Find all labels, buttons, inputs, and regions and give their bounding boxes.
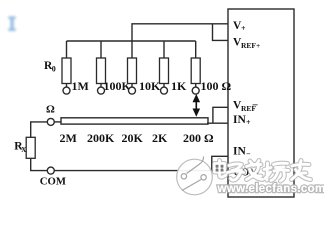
wire omega to track <box>54 121 61 123</box>
wire COM to IC <box>54 170 228 172</box>
pin label VREF- <box>233 100 258 113</box>
wire COM branch to IN- <box>212 156 228 170</box>
resistor 1K <box>160 41 169 87</box>
resistor 100ohm <box>191 41 200 87</box>
svg-text:1M: 1M <box>72 79 89 93</box>
svg-text:10K: 10K <box>139 79 161 93</box>
svg-text:+: + <box>246 118 251 127</box>
pin label VREF+ <box>233 37 260 50</box>
wire bus tap to V+ <box>132 24 228 41</box>
svg-text:IN: IN <box>233 114 246 126</box>
svg-text:IN: IN <box>233 145 246 157</box>
range track bar <box>61 118 208 124</box>
pin label IN- <box>233 145 251 158</box>
wire RX to COM <box>31 158 48 170</box>
watermark chinese text <box>215 161 311 182</box>
terminal circle COM <box>47 167 54 174</box>
resistor 100K <box>97 41 106 87</box>
svg-text:−: − <box>246 150 251 159</box>
svg-text:Ω: Ω <box>46 104 55 116</box>
terminal circle 1M <box>63 87 70 94</box>
resistor RX body <box>26 137 35 158</box>
svg-text:www.elecfans.com: www.elecfans.com <box>217 183 324 195</box>
wire top bus <box>67 40 196 42</box>
svg-text:2M: 2M <box>60 131 77 145</box>
svg-text:100 Ω: 100 Ω <box>201 79 232 93</box>
terminal circle 10K <box>129 87 136 94</box>
wiper double arrow <box>193 94 201 117</box>
counters of glyph dian <box>216 165 224 172</box>
resistor 1M <box>62 41 71 87</box>
terminal circle omega <box>47 118 54 125</box>
resistor RX label <box>14 141 26 154</box>
terminal circle 100K <box>98 87 105 94</box>
wire omega to Rx <box>31 122 48 137</box>
watermark url text <box>217 183 324 195</box>
svg-text:−: − <box>252 100 258 112</box>
svg-text:20K: 20K <box>122 131 144 145</box>
svg-text:0: 0 <box>52 65 56 74</box>
svg-text:+: + <box>241 24 246 33</box>
wire track to IN+ <box>207 122 228 124</box>
watermark logo <box>177 157 213 195</box>
wire track to VREF- <box>213 107 228 123</box>
svg-text:200K: 200K <box>87 131 115 145</box>
svg-text:1K: 1K <box>171 79 187 93</box>
text cursor icon <box>8 16 15 31</box>
terminal circle 1K <box>161 87 168 94</box>
IC U1 box <box>228 9 294 197</box>
svg-text:2K: 2K <box>152 131 168 145</box>
resistor R0 label <box>44 60 56 74</box>
terminal circle 100ohm <box>192 87 199 94</box>
pin label IN+ <box>233 114 251 127</box>
resistor 10K <box>128 41 137 87</box>
svg-text:REF+: REF+ <box>241 41 260 50</box>
svg-text:200 Ω: 200 Ω <box>183 131 214 145</box>
pin label V+ <box>233 20 246 33</box>
wire branch to VREF+ <box>213 24 229 41</box>
svg-text:COM: COM <box>40 176 66 188</box>
